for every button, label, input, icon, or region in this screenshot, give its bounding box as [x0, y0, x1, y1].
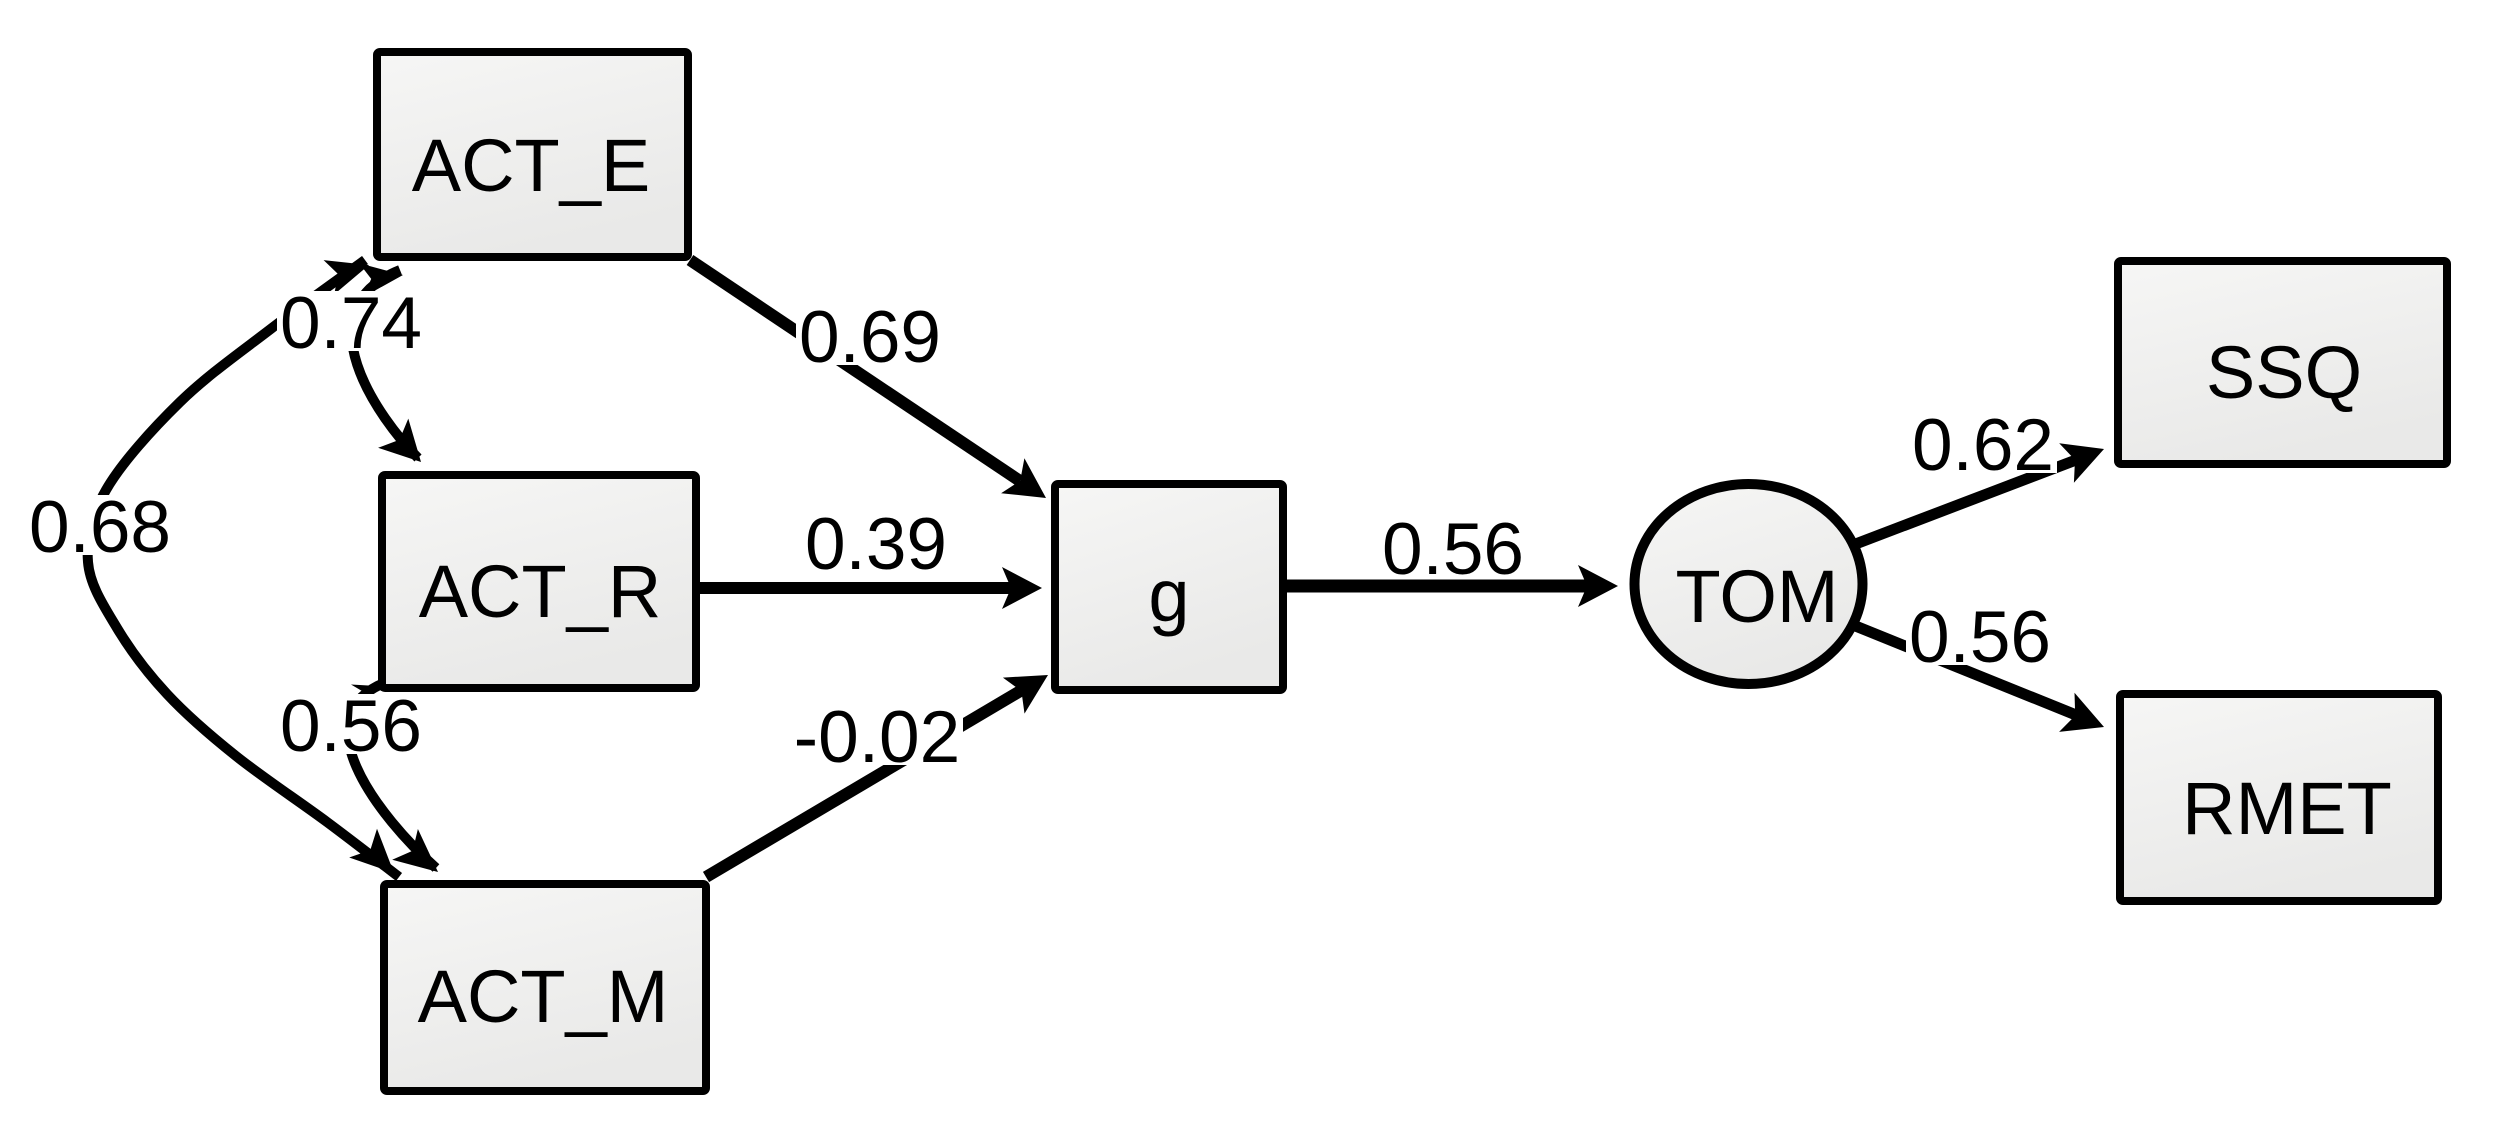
node ACT_M box — [384, 884, 706, 1091]
arrowhead g to TOM — [1578, 565, 1618, 607]
wire path 0.56 TOM to RMET — [1853, 625, 2076, 715]
wire path 0.62 TOM to SSQ — [1853, 460, 2076, 545]
arrowhead 0.56 upper at ACT_R — [351, 685, 377, 698]
svg-text:ACT_E: ACT_E — [412, 124, 651, 207]
node g box — [1055, 484, 1283, 690]
arrowhead 0.74 lower at ACT_R — [378, 419, 421, 462]
arrowhead ACT_R to g — [1002, 567, 1042, 609]
covariance arc 0.56 ACT_R to ACT_M — [348, 680, 436, 868]
arrowhead TOM to RMET — [2059, 693, 2104, 732]
svg-text:ACT_M: ACT_M — [418, 955, 669, 1038]
node ACT_E box — [377, 52, 688, 257]
wire path -0.02 ACT_M to g — [706, 690, 1022, 877]
covariance arc 0.68 ACT_E to ACT_M — [88, 260, 399, 877]
arrowhead 0.68 lower at ACT_M — [349, 829, 394, 873]
svg-text:SSQ: SSQ — [2206, 331, 2362, 414]
node RMET box — [2120, 694, 2438, 901]
svg-text:TOM: TOM — [1675, 555, 1838, 638]
label 0.39 — [802, 504, 950, 585]
svg-text:0.68: 0.68 — [29, 487, 171, 568]
arrowhead ACT_E to g — [1001, 458, 1046, 498]
label -0.02 — [791, 697, 963, 778]
label 0.62 — [1909, 405, 2057, 486]
svg-text:0.56: 0.56 — [280, 686, 422, 767]
svg-text:0.74: 0.74 — [280, 283, 422, 364]
svg-text:g: g — [1148, 554, 1189, 637]
wire path 0.56 g to TOM — [1287, 580, 1588, 593]
svg-text:ACT_R: ACT_R — [419, 550, 662, 633]
label 0.56 middle — [1379, 509, 1527, 590]
svg-text:-0.02: -0.02 — [794, 697, 960, 778]
label 0.56 right — [1906, 597, 2054, 678]
node ACT_R box — [382, 475, 696, 688]
svg-text:0.56: 0.56 — [1909, 597, 2051, 678]
wire path 0.39 ACT_R to g — [699, 582, 1012, 594]
node TOM ellipse — [1635, 484, 1863, 684]
arrowhead TOM to SSQ — [2059, 443, 2104, 482]
arrowhead 0.56 lower at ACT_M — [392, 829, 438, 872]
svg-text:0.69: 0.69 — [799, 297, 941, 378]
svg-text:0.62: 0.62 — [1912, 405, 2054, 486]
svg-text:0.56: 0.56 — [1382, 509, 1524, 590]
arrowhead 0.74 upper at ACT_E — [359, 263, 403, 297]
label 0.69 — [796, 297, 944, 378]
svg-text:RMET: RMET — [2182, 767, 2392, 850]
covariance arc 0.74 ACT_E to ACT_R — [352, 270, 418, 458]
wire path 0.69 ACT_E to g — [690, 260, 1020, 481]
label 0.56 left — [277, 686, 425, 767]
arrowhead 0.68 upper at ACT_E — [324, 260, 369, 294]
arrowhead ACT_M to g — [1003, 675, 1048, 714]
node SSQ box — [2118, 261, 2447, 464]
label 0.68 — [26, 487, 174, 568]
label 0.74 — [277, 283, 425, 364]
svg-text:0.39: 0.39 — [805, 504, 947, 585]
